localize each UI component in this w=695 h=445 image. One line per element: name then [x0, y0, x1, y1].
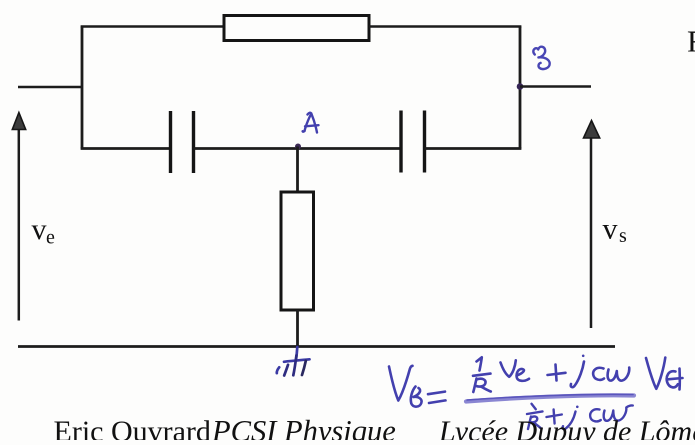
- formula: V of VA: [646, 358, 665, 389]
- formula: plus in numerator: [548, 373, 566, 375]
- handwritten formula VB = (1/R ve + jcw VA)/(1/R + jcw): [389, 355, 683, 407]
- capacitor C1 (left plate): [169, 111, 172, 173]
- formula: denominator c: [590, 409, 601, 421]
- formula: denominator w: [604, 405, 633, 420]
- formula: denominator plus: [547, 415, 562, 418]
- wire: middle row between C1 and C2 through node A: [194, 147, 402, 150]
- svg-text:Lycée Dupuy de Lôme: Lycée Dupuy de Lôme: [438, 415, 695, 440]
- formula: c of jcw numerator: [593, 368, 604, 380]
- node A (junction dot): [295, 144, 301, 150]
- arrow vs (line): [590, 136, 593, 328]
- wire: input stub (ve terminal): [18, 86, 82, 89]
- capacitor C2 (right plate): [423, 111, 426, 173]
- wire: top horizontal left of R1: [81, 25, 225, 28]
- arrow ve (head): [12, 113, 25, 130]
- arrow vs (head): [584, 121, 600, 139]
- svg-text:Eric Ouvrard: Eric Ouvrard: [54, 415, 211, 440]
- svg-text:v: v: [603, 213, 618, 246]
- formula: A subscript of VA: [667, 371, 678, 387]
- capacitor C1 (right plate): [192, 111, 195, 173]
- wire: middle row, left vertical corner to C1: [81, 147, 171, 150]
- node A handwritten label: [303, 113, 319, 133]
- formula: j of jcw numerator: [571, 362, 584, 388]
- resistor R2 (vertical, to ground): [281, 192, 314, 310]
- wire: output stub from node B (vs terminal): [520, 85, 591, 88]
- resistor R1 (top, horizontal): [224, 16, 369, 41]
- svg-text:F: F: [687, 24, 695, 59]
- wire: top horizontal right of R1: [369, 25, 521, 28]
- svg-text:s: s: [619, 225, 627, 247]
- formula: denominator 1/R: [532, 404, 536, 409]
- wire: R2 bottom to ground rail: [296, 310, 299, 347]
- wire: right vertical branch: [519, 27, 522, 149]
- arrow ve (line): [18, 127, 21, 321]
- formula: V of VB: [389, 366, 413, 401]
- wire: left vertical branch: [81, 27, 84, 149]
- formula: fraction bar (light stroke): [466, 395, 634, 401]
- wire: node A down to R2: [296, 147, 299, 194]
- formula: equals sign: [428, 392, 445, 395]
- ground rail (bottom horizontal): [18, 345, 615, 348]
- node B handwritten label: [533, 47, 549, 69]
- node B (junction dot): [517, 83, 524, 90]
- svg-text:PCSI Physique: PCSI Physique: [211, 414, 396, 440]
- formula: numerator 1 of 1/R: [477, 357, 482, 370]
- formula: w of jcw numerator: [608, 368, 630, 381]
- formula: numerator bar of 1/R: [473, 374, 491, 376]
- formula: ve in numerator: [501, 360, 516, 377]
- formula: numerator R of 1/R: [473, 379, 476, 393]
- formula: denominator j: [563, 412, 576, 430]
- wire: middle row from C2 to right vertical: [425, 147, 522, 150]
- formula: B subscript of VB: [411, 387, 422, 407]
- capacitor C2 (left plate): [399, 111, 402, 173]
- ground symbol (handwritten): [277, 347, 310, 376]
- svg-text:e: e: [46, 227, 55, 249]
- svg-text:v: v: [32, 213, 47, 246]
